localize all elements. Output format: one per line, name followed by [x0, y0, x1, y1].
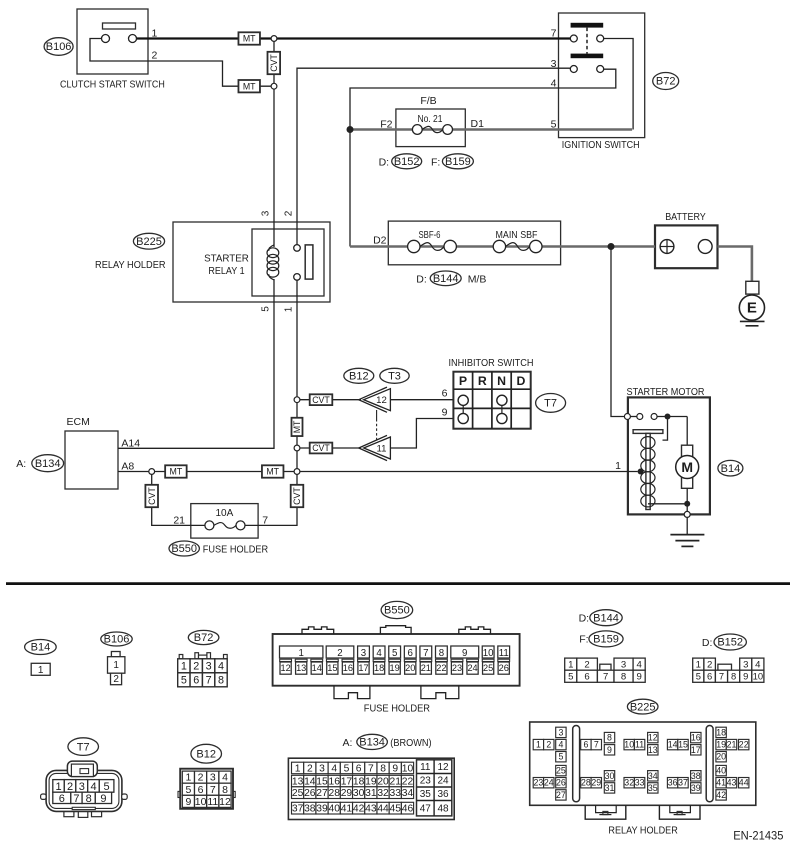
svg-text:10: 10 — [483, 648, 494, 659]
svg-text:19: 19 — [390, 663, 400, 673]
svg-text:10A: 10A — [216, 508, 234, 519]
svg-text:43: 43 — [365, 804, 377, 815]
svg-text:41: 41 — [716, 778, 726, 788]
svg-text:29: 29 — [591, 778, 601, 788]
svg-text:3: 3 — [261, 210, 272, 216]
svg-text:5: 5 — [551, 118, 557, 130]
svg-text:39: 39 — [316, 804, 328, 815]
svg-text:RELAY HOLDER: RELAY HOLDER — [608, 825, 678, 837]
svg-text:17: 17 — [691, 745, 701, 755]
svg-text:24: 24 — [437, 775, 449, 786]
svg-text:1: 1 — [295, 763, 301, 774]
svg-text:19: 19 — [365, 777, 377, 788]
svg-text:B144: B144 — [433, 273, 459, 285]
svg-text:23: 23 — [534, 778, 544, 788]
svg-text:2: 2 — [152, 50, 158, 62]
svg-text:MAIN SBF: MAIN SBF — [496, 230, 538, 241]
svg-text:R: R — [478, 374, 487, 388]
svg-text:12: 12 — [648, 733, 658, 743]
svg-text:7: 7 — [210, 784, 216, 796]
svg-text:1: 1 — [113, 660, 119, 671]
svg-text:7: 7 — [206, 674, 212, 686]
svg-text:9: 9 — [392, 763, 398, 774]
svg-text:B134: B134 — [359, 737, 385, 749]
svg-text:38: 38 — [304, 804, 316, 815]
svg-text:26: 26 — [304, 788, 316, 799]
svg-text:D:: D: — [416, 273, 427, 285]
svg-text:16: 16 — [691, 733, 701, 743]
svg-text:B106: B106 — [104, 634, 130, 646]
svg-text:23: 23 — [452, 663, 462, 673]
svg-text:24: 24 — [467, 663, 477, 673]
svg-text:46: 46 — [402, 804, 414, 815]
svg-text:ECM: ECM — [67, 416, 90, 428]
svg-text:5: 5 — [261, 306, 272, 312]
svg-text:4: 4 — [551, 77, 557, 89]
svg-text:34: 34 — [648, 771, 658, 781]
svg-text:22: 22 — [436, 663, 446, 673]
svg-text:B134: B134 — [35, 458, 61, 470]
svg-text:24: 24 — [544, 778, 554, 788]
svg-text:D: D — [516, 374, 525, 388]
svg-text:5: 5 — [104, 781, 110, 793]
svg-text:2: 2 — [113, 674, 119, 685]
svg-text:32: 32 — [624, 778, 634, 788]
svg-text:F:: F: — [431, 156, 440, 168]
svg-text:T7: T7 — [77, 741, 90, 753]
svg-text:8: 8 — [380, 763, 386, 774]
svg-text:18: 18 — [374, 663, 384, 673]
svg-text:10: 10 — [195, 796, 207, 808]
svg-text:6: 6 — [408, 648, 413, 659]
svg-text:F:: F: — [579, 634, 588, 646]
svg-text:14: 14 — [668, 740, 678, 750]
svg-text:D:: D: — [579, 613, 590, 625]
svg-text:B14: B14 — [31, 642, 51, 654]
svg-text:1: 1 — [152, 28, 158, 40]
svg-text:15: 15 — [327, 663, 337, 673]
svg-text:19: 19 — [716, 740, 726, 750]
svg-text:30: 30 — [353, 788, 365, 799]
svg-text:31: 31 — [365, 788, 377, 799]
svg-text:6: 6 — [59, 793, 65, 805]
svg-text:CVT: CVT — [312, 395, 330, 405]
svg-text:1: 1 — [38, 665, 44, 676]
svg-text:20: 20 — [377, 777, 389, 788]
svg-text:STARTER: STARTER — [204, 253, 249, 265]
svg-text:38: 38 — [691, 771, 701, 781]
svg-text:4: 4 — [90, 781, 96, 793]
svg-text:7: 7 — [73, 793, 79, 805]
svg-text:BATTERY: BATTERY — [665, 211, 706, 223]
svg-text:RELAY 1: RELAY 1 — [208, 265, 244, 277]
svg-text:A:: A: — [16, 458, 26, 470]
svg-text:1: 1 — [696, 660, 701, 671]
svg-text:14: 14 — [304, 777, 316, 788]
svg-text:4: 4 — [755, 660, 761, 671]
svg-text:4: 4 — [636, 660, 642, 671]
svg-text:6: 6 — [707, 671, 712, 682]
svg-text:B550: B550 — [171, 543, 197, 555]
svg-text:STARTER MOTOR: STARTER MOTOR — [627, 386, 705, 398]
svg-text:N: N — [497, 374, 506, 388]
svg-text:F/B: F/B — [420, 95, 436, 107]
svg-text:26: 26 — [556, 778, 566, 788]
svg-text:15: 15 — [316, 777, 328, 788]
svg-text:D2: D2 — [373, 234, 387, 246]
svg-text:2: 2 — [67, 781, 73, 793]
svg-text:20: 20 — [405, 663, 415, 673]
svg-text:12: 12 — [280, 663, 290, 673]
svg-text:7: 7 — [594, 740, 599, 750]
svg-text:10: 10 — [753, 671, 763, 682]
svg-text:B152: B152 — [394, 156, 420, 168]
svg-text:6: 6 — [198, 784, 204, 796]
svg-text:2: 2 — [546, 740, 551, 750]
svg-text:11: 11 — [420, 762, 431, 773]
svg-text:B14: B14 — [721, 463, 741, 475]
svg-text:T3: T3 — [388, 371, 401, 383]
svg-text:P: P — [459, 374, 467, 388]
svg-text:8: 8 — [621, 672, 626, 683]
svg-text:2: 2 — [284, 210, 295, 216]
svg-text:40: 40 — [329, 804, 341, 815]
svg-text:CVT: CVT — [292, 487, 302, 505]
svg-text:5: 5 — [185, 784, 191, 796]
svg-text:27: 27 — [556, 790, 566, 800]
svg-text:F2: F2 — [380, 118, 392, 130]
svg-text:4: 4 — [376, 648, 382, 659]
svg-text:40: 40 — [716, 766, 726, 776]
svg-text:8: 8 — [86, 793, 92, 805]
svg-text:30: 30 — [605, 771, 615, 781]
svg-text:8: 8 — [218, 674, 224, 686]
svg-text:1: 1 — [615, 460, 621, 472]
svg-text:1: 1 — [185, 772, 191, 784]
svg-text:B159: B159 — [593, 634, 619, 646]
svg-text:4: 4 — [222, 772, 228, 784]
svg-text:IGNITION SWITCH: IGNITION SWITCH — [562, 139, 640, 151]
svg-text:33: 33 — [390, 788, 402, 799]
svg-text:T7: T7 — [544, 398, 557, 410]
svg-text:12: 12 — [219, 796, 231, 808]
svg-text:21: 21 — [390, 777, 402, 788]
svg-text:27: 27 — [316, 788, 328, 799]
svg-text:5: 5 — [568, 672, 573, 683]
svg-text:12: 12 — [437, 762, 449, 773]
svg-text:8: 8 — [439, 648, 444, 659]
svg-text:2: 2 — [198, 772, 204, 784]
svg-text:MT: MT — [243, 34, 256, 44]
svg-text:CVT: CVT — [147, 487, 157, 505]
svg-text:2: 2 — [584, 660, 589, 671]
svg-text:CVT: CVT — [312, 443, 330, 453]
svg-text:M: M — [681, 459, 693, 475]
svg-text:28: 28 — [581, 778, 591, 788]
svg-text:12: 12 — [376, 395, 387, 406]
svg-text:B159: B159 — [445, 156, 471, 168]
svg-text:2: 2 — [193, 660, 199, 672]
svg-text:5: 5 — [344, 763, 350, 774]
svg-text:No. 21: No. 21 — [417, 114, 442, 125]
svg-text:6: 6 — [442, 387, 448, 399]
svg-text:37: 37 — [292, 804, 304, 815]
svg-text:1: 1 — [181, 660, 187, 672]
svg-text:18: 18 — [353, 777, 365, 788]
svg-text:8: 8 — [607, 733, 612, 743]
svg-text:48: 48 — [437, 803, 449, 814]
svg-text:45: 45 — [390, 804, 402, 815]
svg-text:11: 11 — [635, 740, 644, 750]
svg-text:3: 3 — [558, 727, 563, 737]
svg-text:FUSE HOLDER: FUSE HOLDER — [364, 703, 431, 715]
svg-text:14: 14 — [312, 663, 322, 673]
svg-text:13: 13 — [648, 745, 658, 755]
svg-text:B152: B152 — [717, 637, 743, 649]
svg-text:7: 7 — [603, 672, 608, 683]
svg-text:CVT: CVT — [269, 54, 279, 72]
svg-text:16: 16 — [329, 777, 341, 788]
svg-text:3: 3 — [319, 763, 325, 774]
svg-text:25: 25 — [556, 766, 566, 776]
svg-text:32: 32 — [377, 788, 389, 799]
svg-text:A8: A8 — [121, 461, 134, 473]
svg-text:FUSE HOLDER: FUSE HOLDER — [203, 544, 269, 556]
svg-text:3: 3 — [361, 648, 366, 659]
svg-text:43: 43 — [727, 778, 737, 788]
svg-text:E: E — [747, 300, 757, 317]
svg-text:1: 1 — [568, 660, 573, 671]
svg-text:11: 11 — [499, 648, 509, 659]
svg-text:5: 5 — [696, 671, 701, 682]
svg-text:5: 5 — [558, 752, 563, 762]
svg-text:4: 4 — [558, 740, 563, 750]
svg-text:SBF-6: SBF-6 — [419, 230, 441, 241]
svg-text:10: 10 — [624, 740, 634, 750]
svg-text:3: 3 — [743, 660, 748, 671]
svg-text:8: 8 — [222, 784, 228, 796]
svg-text:29: 29 — [341, 788, 353, 799]
svg-text:22: 22 — [402, 777, 414, 788]
svg-text:33: 33 — [635, 778, 645, 788]
svg-text:9: 9 — [743, 671, 748, 682]
svg-text:6: 6 — [584, 672, 589, 683]
svg-text:9: 9 — [607, 745, 612, 755]
svg-text:1: 1 — [284, 306, 295, 312]
svg-text:7: 7 — [719, 671, 724, 682]
svg-text:9: 9 — [185, 796, 191, 808]
svg-text:36: 36 — [437, 789, 449, 800]
svg-text:D:: D: — [702, 637, 713, 649]
svg-text:10: 10 — [402, 763, 414, 774]
svg-text:6: 6 — [583, 740, 588, 750]
svg-text:42: 42 — [716, 790, 726, 800]
svg-text:37: 37 — [678, 778, 688, 788]
svg-text:34: 34 — [402, 788, 414, 799]
svg-text:44: 44 — [739, 778, 749, 788]
svg-text:1: 1 — [536, 740, 541, 750]
svg-text:36: 36 — [668, 778, 678, 788]
svg-text:9: 9 — [100, 793, 106, 805]
svg-text:7: 7 — [423, 648, 428, 659]
svg-text:2: 2 — [337, 648, 342, 659]
svg-text:B106: B106 — [46, 41, 72, 53]
svg-text:INHIBITOR SWITCH: INHIBITOR SWITCH — [449, 357, 534, 369]
svg-text:B225: B225 — [630, 701, 656, 713]
svg-text:17: 17 — [341, 777, 353, 788]
svg-text:4: 4 — [331, 763, 337, 774]
svg-text:MT: MT — [243, 81, 256, 91]
svg-text:MT: MT — [266, 467, 279, 477]
svg-text:9: 9 — [636, 672, 641, 683]
svg-text:21: 21 — [173, 514, 185, 526]
svg-text:11: 11 — [207, 796, 218, 808]
svg-text:11: 11 — [377, 444, 387, 455]
svg-text:B72: B72 — [656, 76, 676, 88]
svg-text:44: 44 — [377, 804, 389, 815]
svg-text:MT: MT — [170, 467, 183, 477]
svg-text:3: 3 — [206, 660, 212, 672]
svg-text:RELAY HOLDER: RELAY HOLDER — [95, 259, 166, 271]
svg-text:6: 6 — [193, 674, 199, 686]
svg-text:47: 47 — [420, 803, 432, 814]
svg-text:35: 35 — [648, 783, 658, 793]
svg-text:7: 7 — [262, 514, 268, 526]
svg-text:CLUTCH START SWITCH: CLUTCH START SWITCH — [60, 79, 165, 91]
svg-text:A14: A14 — [121, 437, 140, 449]
svg-text:EN-21435: EN-21435 — [733, 831, 783, 843]
svg-text:23: 23 — [420, 775, 432, 786]
svg-text:D:: D: — [379, 156, 390, 168]
svg-text:9: 9 — [462, 648, 467, 659]
svg-text:B225: B225 — [136, 236, 162, 248]
svg-text:A:: A: — [343, 737, 353, 749]
svg-text:22: 22 — [739, 740, 749, 750]
svg-text:28: 28 — [329, 788, 341, 799]
svg-text:8: 8 — [731, 671, 736, 682]
svg-text:B550: B550 — [384, 605, 410, 617]
svg-text:17: 17 — [358, 663, 368, 673]
svg-text:18: 18 — [716, 727, 726, 737]
svg-text:B144: B144 — [593, 612, 619, 624]
svg-text:26: 26 — [499, 663, 509, 673]
svg-text:3: 3 — [210, 772, 216, 784]
svg-text:D1: D1 — [471, 118, 485, 130]
svg-text:3: 3 — [79, 781, 85, 793]
svg-text:13: 13 — [292, 777, 304, 788]
svg-text:31: 31 — [605, 783, 615, 793]
svg-text:3: 3 — [621, 660, 626, 671]
svg-text:B72: B72 — [194, 632, 214, 644]
svg-text:3: 3 — [551, 58, 557, 70]
svg-text:16: 16 — [343, 663, 353, 673]
svg-text:9: 9 — [442, 406, 448, 418]
svg-text:15: 15 — [678, 740, 688, 750]
svg-text:4: 4 — [218, 660, 224, 672]
svg-text:1: 1 — [55, 781, 61, 793]
svg-text:B12: B12 — [196, 748, 216, 760]
svg-text:39: 39 — [691, 783, 701, 793]
svg-text:2: 2 — [707, 660, 712, 671]
svg-text:2: 2 — [307, 763, 313, 774]
svg-text:13: 13 — [296, 663, 306, 673]
svg-text:41: 41 — [341, 804, 353, 815]
svg-text:21: 21 — [421, 663, 431, 673]
svg-text:(BROWN): (BROWN) — [390, 737, 431, 749]
svg-text:6: 6 — [356, 763, 362, 774]
svg-text:M/B: M/B — [468, 273, 487, 285]
svg-text:35: 35 — [420, 789, 432, 800]
svg-text:25: 25 — [483, 663, 493, 673]
svg-text:MT: MT — [292, 420, 302, 433]
svg-text:42: 42 — [353, 804, 365, 815]
svg-text:5: 5 — [181, 674, 187, 686]
svg-text:20: 20 — [716, 752, 726, 762]
svg-text:7: 7 — [368, 763, 374, 774]
svg-text:7: 7 — [551, 28, 557, 40]
svg-text:25: 25 — [292, 788, 304, 799]
svg-text:5: 5 — [392, 648, 397, 659]
svg-text:21: 21 — [727, 740, 737, 750]
svg-text:B12: B12 — [349, 371, 369, 383]
svg-text:1: 1 — [299, 648, 304, 659]
